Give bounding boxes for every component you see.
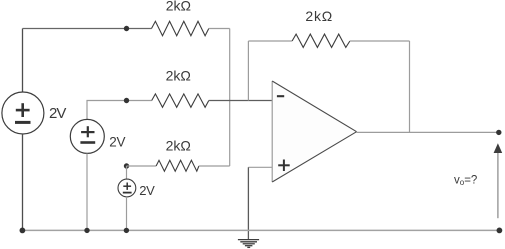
wire: feedback row left segment xyxy=(248,40,292,42)
wire: R1 right end to summing vertical xyxy=(209,28,230,30)
arrow: output voltage indicator shaft xyxy=(497,153,499,219)
plus-minus symbol of V2 xyxy=(80,126,95,142)
svg-text:2V: 2V xyxy=(109,134,125,149)
plus-minus symbol of V1 xyxy=(15,103,31,122)
node: rail dot at V1 branch xyxy=(20,228,26,234)
wire: V3 bottom to ground rail xyxy=(126,197,128,231)
wire: row3 from junction to resistor R3 xyxy=(127,165,157,167)
wire: V1 bottom to ground rail xyxy=(22,134,24,230)
node: junction dot on row1 xyxy=(124,26,129,31)
node: output dot xyxy=(496,130,501,135)
wire: summing junction vertical (R1/R3 to inverting node) xyxy=(229,29,231,167)
svg-text:2kΩ: 2kΩ xyxy=(305,8,333,24)
wire: left branch vertical from row1 corner down to source V1 top xyxy=(22,29,24,93)
wire: row1 horizontal from corner to resistor R1 xyxy=(23,28,152,30)
voltage source V3 2V xyxy=(118,179,136,197)
resistor R1 2kOhm xyxy=(152,21,209,36)
wire: bottom ground rail xyxy=(22,229,499,231)
node: junction dot on row3 above V3 xyxy=(124,163,129,168)
resistor R3 2kOhm xyxy=(156,160,199,171)
wire: op-amp output row xyxy=(357,131,499,133)
wire: ground stem from non-inverting input down through rail xyxy=(247,167,249,239)
wire: feedback right vertical down to output row xyxy=(409,41,411,132)
svg-text:2kΩ: 2kΩ xyxy=(166,138,191,154)
svg-text:2V: 2V xyxy=(49,105,66,122)
arrow: output voltage indicator head xyxy=(494,143,503,153)
svg-text:2kΩ: 2kΩ xyxy=(166,68,191,84)
node: rail dot at V2 branch xyxy=(84,228,89,233)
ground symbol xyxy=(238,240,259,248)
svg-text:2V: 2V xyxy=(139,183,155,198)
node: rail dot at V3 branch xyxy=(124,228,129,233)
plus-minus symbol of V3 xyxy=(123,183,132,193)
svg-text:2kΩ: 2kΩ xyxy=(166,0,191,14)
svg-text:vo=?: vo=? xyxy=(454,174,477,187)
wire: feedback row right segment xyxy=(350,40,410,42)
wire: row2 corner from V2 top up and right to resistor R2 xyxy=(87,101,152,120)
wire: non-inverting input from ground stem xyxy=(248,166,272,168)
voltage source V1 2V xyxy=(2,92,44,134)
node: rail dot at output right end xyxy=(497,228,503,234)
wire: V3 top stub to row3 junction xyxy=(126,166,128,179)
resistor RF 2kOhm feedback xyxy=(292,34,350,47)
wire: feedback node vertical from feedback row down to inverting row xyxy=(247,41,249,101)
op-amp inverting input minus sign xyxy=(277,95,284,97)
op-amp U1 triangle xyxy=(272,81,356,182)
resistor R2 2kOhm xyxy=(152,94,209,107)
wire: R3 right end to summing vertical xyxy=(199,165,230,167)
wire: V2 bottom to ground rail xyxy=(86,153,88,230)
op-amp non-inverting input plus sign xyxy=(278,160,290,172)
voltage source V2 2V xyxy=(70,119,104,153)
node: junction dot on row2 xyxy=(124,98,129,103)
wire: row2 from R2 to op-amp inverting input xyxy=(209,100,272,102)
